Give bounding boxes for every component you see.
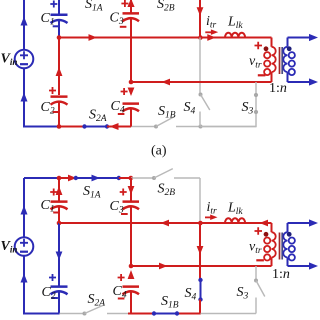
transformer primary winding (b) (264, 223, 276, 266)
label - vtr (b) (256, 259, 264, 261)
switch S2A open (b) (83, 305, 129, 316)
current arrow down (b) (197, 246, 204, 255)
wire: secondary top out (b) (288, 222, 311, 224)
current arrow itr (a) (205, 29, 218, 35)
transformer secondary winding (a) (283, 38, 295, 83)
switch S1B open (a) (154, 117, 256, 129)
wire: bottom gray segment left (b) (60, 313, 85, 315)
wire: middle row to transformer (b) (59, 222, 272, 224)
svg-text:1:n: 1:n (272, 267, 290, 282)
current arrow out top (b) (309, 219, 318, 226)
current arrow out bottom (a) (309, 78, 318, 85)
capacitor C4 (a) (118, 88, 139, 127)
current arrow right after node (a) (207, 34, 216, 41)
node: junction C3 top (b) (129, 176, 134, 181)
wire: top blue segment (b) (24, 177, 58, 179)
inductor Llk (b) (225, 218, 245, 223)
node: junction C4 top (a) (129, 80, 134, 85)
wire: C2 upper stub (a) (58, 38, 60, 96)
wire: gray corner down to node (b) (199, 178, 201, 222)
wire: bottom gray segment right (b) (201, 313, 257, 315)
capacitor C1 (a) (50, 0, 67, 37)
wire: secondary bottom out (b) (288, 265, 311, 267)
current arrow up on rail (a) (21, 17, 28, 26)
current arrow up on rail (b) (21, 206, 28, 215)
current arrow up on rail lower (b) (21, 274, 28, 283)
transformer secondary winding (b) (283, 223, 295, 266)
wire: middle row to transformer (a) (59, 37, 272, 39)
current arrow left on bottom wire (a) (110, 123, 119, 130)
source Vin (b) (15, 237, 34, 256)
transformer primary winding (a) (264, 38, 276, 83)
wire: top gray segment (b) (131, 177, 154, 179)
node: junction C1 bottom (b) (57, 221, 62, 226)
switch S2B open (b) (152, 169, 200, 180)
node: junction C1 bottom (a) (57, 35, 62, 40)
polarity dot secondary (b) (287, 232, 292, 237)
capacitor C3 (b) (120, 178, 139, 266)
transformer core (b) (280, 233, 283, 260)
current arrow itr (b) (205, 215, 218, 221)
switch S4 open (a) (199, 38, 210, 127)
wire: bottom red segment (b) (128, 313, 201, 315)
inductor Llk (a) (225, 33, 245, 38)
current arrow out top (a) (309, 34, 318, 41)
wire: left input rail (b) (24, 178, 60, 314)
wire: S4 red stub to bottom (b) (199, 300, 201, 314)
wire: bottom red segment to C4 (a) (107, 126, 131, 128)
current arrow up on rail lower (a) (21, 93, 28, 102)
wire: bottom gray segment (a) (131, 126, 156, 128)
transformer core (a) (280, 47, 283, 74)
node: junction S2B column (b) (198, 221, 203, 226)
wire: lower middle row (a) (131, 81, 272, 83)
capacitor C1 (b) (50, 178, 67, 223)
wire: left input rail (a) (24, 0, 58, 127)
switch S2A closed (a) (82, 124, 109, 128)
capacitor C4 (b) (118, 270, 139, 314)
label - vtr (a) (258, 74, 266, 76)
wire: bottom red segment left (a) (58, 126, 86, 128)
switch S4 closed (b) (198, 278, 202, 302)
polarity dot secondary (a) (287, 46, 292, 51)
node: junction C4 top (b) (129, 264, 134, 269)
polarity dot primary (a) (264, 46, 269, 51)
svg-text:1:n: 1:n (269, 81, 287, 96)
current arrow right (a) (89, 34, 98, 41)
current arrow right (b) (68, 175, 77, 182)
switch S1B closed (b) (152, 311, 179, 315)
wire: secondary bottom out (a) (288, 81, 311, 83)
node: junction C1 top (b) (57, 176, 62, 181)
current arrow out bottom (b) (309, 262, 318, 269)
capacitor C2 (b) (49, 223, 68, 314)
current arrow left (a) (162, 79, 171, 86)
wire: lower middle row (b) (131, 265, 272, 267)
current arrow down (a) (197, 7, 204, 16)
current arrow left near transformer (b) (260, 220, 269, 227)
wire: secondary top out (a) (288, 37, 311, 39)
switch S1A closed (b) (74, 175, 121, 182)
switch S3 closed (a) (201, 82, 259, 127)
node: gray junction S4 bottom (a) (199, 125, 203, 129)
node: junction S2B column (a) (198, 35, 203, 40)
current arrow left (b) (161, 220, 170, 227)
switch S3 open (b) (254, 266, 265, 314)
wire: top red segment (b) (58, 177, 77, 179)
capacitor C2 (a) (49, 87, 68, 127)
wire: top red segment to C3 (b) (119, 177, 131, 179)
wire: S2B column red upper (a) (199, 0, 201, 38)
label + vtr (b) (255, 227, 263, 235)
label + vtr (a) (255, 42, 263, 50)
source Vin (a) (15, 50, 34, 69)
current arrow right (b) (159, 263, 168, 270)
capacitor C3 (a) (120, 0, 139, 82)
wire: S4 column red (b) (199, 223, 201, 280)
polarity dot primary (b) (264, 232, 269, 237)
current arrow up into node (a) (56, 67, 63, 76)
svg-text:(a): (a) (151, 144, 167, 159)
node: junction C2 bottom (a) (57, 124, 62, 129)
